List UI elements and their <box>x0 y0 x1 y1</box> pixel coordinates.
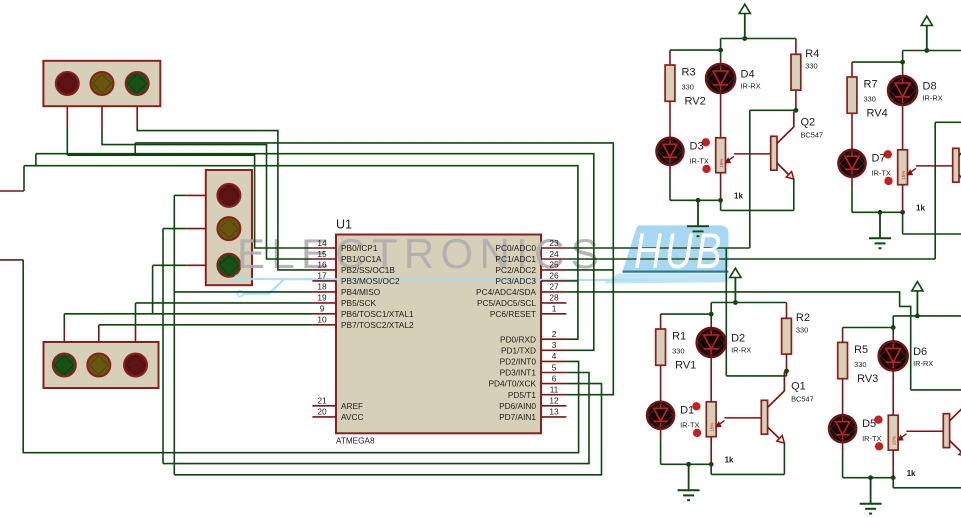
svg-text:21: 21 <box>317 396 327 406</box>
svg-text:PB1/OC1A: PB1/OC1A <box>341 254 382 264</box>
VCC power arrow (module with R7) <box>926 26 928 51</box>
svg-text:14: 14 <box>317 238 327 248</box>
wire emitter ground rail <box>843 477 894 479</box>
junction dots ground rail <box>696 198 701 203</box>
pin 17 PB3/MOSI/OC2 <box>312 280 336 282</box>
wire TL1 red lamp to bus <box>66 106 68 127</box>
resistor R4 330 <box>795 39 797 55</box>
svg-text:1k: 1k <box>734 192 743 201</box>
pin 3 PD1/TXD <box>541 349 566 351</box>
svg-text:15%: 15% <box>901 171 906 180</box>
junction dot VCC node <box>742 36 747 41</box>
svg-text:PD4/T0/XCK: PD4/T0/XCK <box>489 379 537 389</box>
svg-text:PD6/AIN0: PD6/AIN0 <box>499 401 536 411</box>
watermark ELECTRONICS HUB <box>604 225 729 283</box>
svg-text:IR-RX: IR-RX <box>913 359 933 368</box>
svg-text:15%: 15% <box>719 159 724 168</box>
LED D4 IR-RX <box>720 50 722 58</box>
svg-text:26: 26 <box>549 271 559 281</box>
svg-text:330: 330 <box>672 347 684 356</box>
svg-text:PD5/T1: PD5/T1 <box>508 390 537 400</box>
svg-text:16: 16 <box>317 260 327 270</box>
wire PC1 to sensor module 2 output <box>566 258 935 260</box>
pin 25 PC2/ADC2 <box>541 269 566 271</box>
svg-text:15%: 15% <box>892 436 897 445</box>
pin 14 PB0/ICP1 <box>312 247 336 249</box>
transistor Q(clipped) BC547 <box>906 430 943 432</box>
svg-text:15%: 15% <box>710 423 715 432</box>
svg-text:PB4/MISO: PB4/MISO <box>341 287 381 297</box>
watermark HUB letters <box>634 224 725 279</box>
pin 19 PB5/SCK <box>312 302 336 304</box>
svg-text:D5: D5 <box>862 418 876 430</box>
svg-text:ATMEGA8: ATMEGA8 <box>336 437 375 446</box>
svg-text:HUB: HUB <box>634 224 725 279</box>
VCC power arrow (module with R5) <box>916 291 918 316</box>
svg-text:10: 10 <box>317 315 327 325</box>
transistor Q2 BC547 <box>734 153 771 155</box>
svg-text:PB5/SCK: PB5/SCK <box>341 298 377 308</box>
svg-text:1k: 1k <box>725 456 734 465</box>
wire emitter return module 1 <box>793 179 795 211</box>
junction dots ground rail <box>878 210 883 215</box>
traffic light TL3 <box>44 342 159 388</box>
svg-text:12: 12 <box>549 396 559 406</box>
svg-text:RV1: RV1 <box>675 360 696 372</box>
pin 2 PD0/RXD <box>541 338 566 340</box>
pin 1 PC6/RESET <box>541 313 566 315</box>
resistor R7 330 <box>847 77 857 113</box>
ground symbol <box>879 212 881 238</box>
svg-text:330: 330 <box>805 62 817 71</box>
svg-text:1: 1 <box>552 304 557 314</box>
svg-text:PD0/RXD: PD0/RXD <box>500 334 536 344</box>
svg-text:IR-RX: IR-RX <box>741 82 761 91</box>
svg-text:D4: D4 <box>741 69 755 81</box>
svg-text:IR-TX: IR-TX <box>862 434 881 443</box>
svg-text:D6: D6 <box>913 346 927 358</box>
svg-text:PB3/MOSI/OC2: PB3/MOSI/OC2 <box>341 276 400 286</box>
svg-text:18: 18 <box>317 282 327 292</box>
resistor R1 330 <box>656 329 666 365</box>
svg-text:24: 24 <box>549 249 559 259</box>
svg-text:PD7/AIN1: PD7/AIN1 <box>499 412 536 422</box>
wire bus y154 to PB0 and PD1 <box>36 154 594 351</box>
svg-text:330: 330 <box>854 360 866 369</box>
svg-text:RV2: RV2 <box>685 96 706 108</box>
svg-text:330: 330 <box>796 326 808 335</box>
wire bottom bus2 PD3 <box>163 373 589 464</box>
svg-text:PB2/SS/OC1B: PB2/SS/OC1B <box>341 265 395 275</box>
junction dot RX branch <box>900 60 905 65</box>
wire module 2 collector node toward edge <box>935 121 961 123</box>
svg-text:9: 9 <box>320 304 325 314</box>
svg-text:R7: R7 <box>864 79 878 91</box>
pin 11 PD5/T1 <box>541 394 566 396</box>
svg-text:330: 330 <box>682 83 694 92</box>
traffic light TL2 (vertical) <box>206 170 252 285</box>
junction dots ground rail <box>868 475 873 480</box>
svg-text:PC3/ADC3: PC3/ADC3 <box>495 276 536 286</box>
pin 27 PC4/ADC4/SDA <box>541 291 566 293</box>
svg-text:D8: D8 <box>923 81 937 93</box>
resistor R2 330 <box>786 303 788 319</box>
svg-text:PC6/RESET: PC6/RESET <box>490 309 536 319</box>
svg-text:R2: R2 <box>796 312 810 324</box>
pin 5 PD3/INT1 <box>541 372 566 374</box>
svg-text:PB0/ICP1: PB0/ICP1 <box>341 243 378 253</box>
svg-text:PD3/INT1: PD3/INT1 <box>500 368 537 378</box>
wire bus y166 PC3 PD0 <box>24 166 578 340</box>
wire left connector pin A <box>0 190 24 192</box>
svg-text:19: 19 <box>317 293 327 303</box>
pin 6 PD4/T0/XCK <box>541 383 566 385</box>
wire collector node module 3 <box>786 371 788 376</box>
svg-text:R4: R4 <box>805 48 819 60</box>
wire TL3 green lamp to PB6 <box>63 327 65 342</box>
wire emitter return module 3 <box>783 443 785 475</box>
svg-text:25: 25 <box>549 260 559 270</box>
svg-text:PC2/ADC2: PC2/ADC2 <box>495 265 536 275</box>
wire bus y143 PC2 PD5 <box>135 143 613 395</box>
svg-text:IR-RX: IR-RX <box>731 346 751 355</box>
svg-text:23: 23 <box>549 238 559 248</box>
svg-text:Q2: Q2 <box>801 117 816 129</box>
pin 23 PC0/ADC0 <box>541 247 566 249</box>
svg-text:IR-TX: IR-TX <box>690 157 709 166</box>
potentiometer RV4 1k <box>898 150 908 185</box>
wire module 4 collector node toward edge <box>911 389 961 391</box>
wire TL3 red lamp to PB5 <box>135 327 137 342</box>
wire PC0 to sensor outputs 1 and 3 <box>566 247 749 249</box>
svg-text:2: 2 <box>552 329 557 339</box>
potentiometer RV2 1k <box>716 138 726 173</box>
VCC power arrow (module with R1) <box>734 278 736 303</box>
svg-text:1k: 1k <box>907 469 916 478</box>
svg-text:13: 13 <box>549 407 559 417</box>
svg-text:D3: D3 <box>690 141 704 153</box>
svg-text:R5: R5 <box>854 344 868 356</box>
svg-text:20: 20 <box>317 407 327 417</box>
pin 26 PC3/ADC3 <box>541 280 566 282</box>
wire bottom bus3 PD4 <box>174 384 601 475</box>
ground symbol <box>697 200 699 226</box>
pin 10 PB7/TOSC2/XTAL2 <box>312 324 336 326</box>
wire TL2 green pin to PB6 row <box>186 264 206 266</box>
svg-text:PC0/ADC0: PC0/ADC0 <box>495 243 536 253</box>
svg-text:5: 5 <box>552 362 557 372</box>
svg-text:AVCC: AVCC <box>341 412 363 422</box>
LED D3 IR-TX <box>657 138 684 165</box>
junction dot RX branch <box>891 325 896 330</box>
wire vcc rail <box>711 302 786 304</box>
junction dot VCC node <box>733 300 738 305</box>
resistor R3 330 <box>665 65 675 101</box>
svg-text:R3: R3 <box>682 67 696 79</box>
svg-text:4: 4 <box>552 351 557 361</box>
svg-text:PC1/ADC1: PC1/ADC1 <box>495 254 536 264</box>
svg-text:PB6/TOSC1/XTAL1: PB6/TOSC1/XTAL1 <box>341 309 414 319</box>
LED D1 IR-TX <box>647 402 674 429</box>
wire TL3 amber lamp to PB7 <box>98 327 100 342</box>
LED D5 IR-TX <box>829 415 856 442</box>
wire output module 1 down to PC0 <box>749 110 751 248</box>
pin 18 PB4/MISO <box>312 291 336 293</box>
potentiometer RV1 1k <box>706 402 716 437</box>
wire TL1 amber lamp to PB1 <box>101 106 103 129</box>
svg-text:D1: D1 <box>680 405 694 417</box>
wire left connector pin B to bottom bus1 PD2 <box>0 259 23 261</box>
svg-text:17: 17 <box>317 271 327 281</box>
svg-text:RV4: RV4 <box>867 108 888 120</box>
transistor Q(clipped) BC547 <box>916 165 953 167</box>
transistor Q1 BC547 <box>724 417 761 419</box>
svg-text:BC547: BC547 <box>791 395 814 404</box>
potentiometer RV3 1k <box>888 415 898 450</box>
wire module 4 emitter return <box>892 478 894 488</box>
svg-text:PD1/TXD: PD1/TXD <box>501 345 536 355</box>
pin 16 PB2/SS/OC1B <box>312 269 336 271</box>
pin 9 PB6/TOSC1/XTAL1 <box>312 313 336 315</box>
ground symbol <box>688 464 690 490</box>
svg-text:D7: D7 <box>872 153 886 165</box>
junction dot RX branch <box>718 48 723 53</box>
pin 12 PD6/AIN0 <box>541 405 566 407</box>
svg-text:R1: R1 <box>672 331 686 343</box>
wire TL1 green lamp to PB2 <box>136 106 138 127</box>
junction dot RX branch <box>709 312 714 317</box>
junction dot VCC node <box>915 314 920 319</box>
svg-text:PC5/ADC5/SCL: PC5/ADC5/SCL <box>477 298 536 308</box>
svg-text:RV3: RV3 <box>857 373 878 385</box>
ground symbol <box>870 478 872 504</box>
watermark ELECTRONICS text and swoosh <box>235 230 648 297</box>
svg-text:6: 6 <box>552 373 557 383</box>
svg-text:330: 330 <box>864 95 876 104</box>
junction dot VCC node <box>924 48 929 53</box>
wire TL2 red pin to PB4 and bus3 <box>186 194 206 196</box>
wire emitter ground rail <box>670 199 721 201</box>
pin 20 AVCC <box>312 416 336 418</box>
pin 13 PD7/AIN1 <box>541 416 566 418</box>
pin 21 AREF <box>312 405 336 407</box>
LED D8 IR-RX <box>902 62 904 70</box>
svg-text:15: 15 <box>317 249 327 259</box>
wire vcc rail <box>903 50 961 52</box>
svg-text:BC547: BC547 <box>801 131 824 140</box>
svg-text:PB7/TOSC2/XTAL2: PB7/TOSC2/XTAL2 <box>341 320 414 330</box>
svg-text:Q1: Q1 <box>791 381 806 393</box>
pin 28 PC5/ADC5/SCL <box>541 302 566 304</box>
VCC power arrow (module with R3) <box>744 14 746 39</box>
wire PC4 to sensor module 4 output <box>566 292 910 390</box>
LED D7 IR-TX <box>839 150 866 177</box>
svg-text:11: 11 <box>550 385 559 395</box>
pin 15 PB1/OC1A <box>312 258 336 260</box>
svg-text:D2: D2 <box>731 333 745 345</box>
wire vcc rail <box>893 315 961 317</box>
wire TL2 amber pin to PB5 and bus2 <box>186 228 206 230</box>
wire vcc rail <box>721 38 796 40</box>
svg-text:PC4/ADC4/SDA: PC4/ADC4/SDA <box>476 287 536 297</box>
pin 24 PC1/ADC1 <box>541 258 566 260</box>
svg-text:28: 28 <box>549 293 559 303</box>
LED D2 IR-RX <box>710 314 712 322</box>
pin 4 PD2/INT0 <box>541 360 566 362</box>
wire emitter ground rail <box>661 463 712 465</box>
svg-text:3: 3 <box>552 340 557 350</box>
svg-text:IR-RX: IR-RX <box>923 94 943 103</box>
svg-text:1k: 1k <box>916 204 925 213</box>
junction dots ground rail <box>686 462 691 467</box>
wire module 2 emitter return <box>902 212 904 234</box>
LED D6 IR-RX <box>892 328 894 336</box>
wire collector node module 1 <box>750 109 796 111</box>
resistor R5 330 <box>838 342 848 378</box>
traffic light TL1 <box>43 61 160 106</box>
svg-text:27: 27 <box>549 282 559 292</box>
svg-text:IR-TX: IR-TX <box>680 421 699 430</box>
svg-text:AREF: AREF <box>341 401 363 411</box>
IC U1 ATMEGA8 <box>336 235 541 434</box>
svg-text:PD2/INT0: PD2/INT0 <box>500 357 537 367</box>
svg-text:IR-TX: IR-TX <box>872 169 891 178</box>
wire emitter ground rail <box>852 211 903 213</box>
